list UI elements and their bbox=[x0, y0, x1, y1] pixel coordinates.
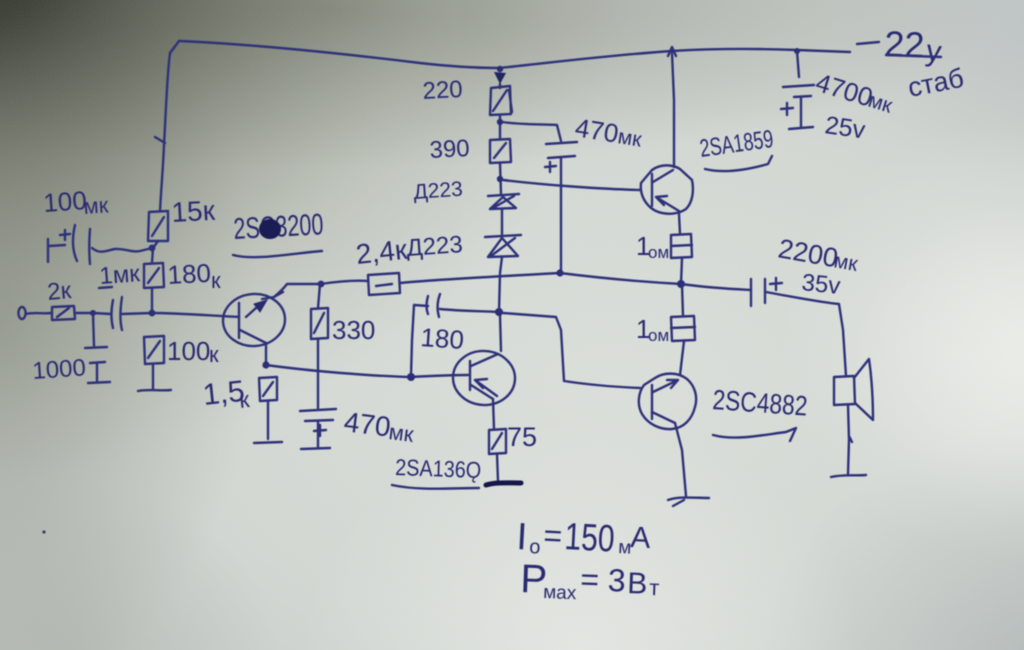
resistor 390 bbox=[490, 139, 511, 163]
resistor 15k bbox=[148, 211, 168, 241]
stray tick on left vertical bbox=[155, 137, 165, 143]
label Pmax = 3 Вт bbox=[520, 557, 660, 604]
label 25v bbox=[823, 111, 867, 144]
node top rail / 4700мк junction bbox=[794, 48, 800, 54]
label 2,4k bbox=[354, 234, 409, 270]
svg-text:В: В bbox=[627, 567, 648, 601]
node 470мк/output rail bbox=[556, 269, 563, 276]
wire Q3 emitter to 75 bbox=[493, 399, 494, 429]
resistor 1ом #2 bbox=[671, 316, 695, 341]
svg-text:2SA136Ǫ: 2SA136Ǫ bbox=[395, 454, 482, 483]
resistor 1,5k bbox=[259, 377, 277, 401]
svg-text:мах: мах bbox=[543, 582, 577, 604]
node 390/base-feed bbox=[497, 176, 503, 182]
wire diode2 to junction bbox=[499, 257, 502, 312]
svg-text:180: 180 bbox=[420, 322, 465, 355]
svg-text:ом: ом bbox=[648, 326, 669, 345]
label 2SC3200 bbox=[233, 208, 325, 257]
label Д223 #1 bbox=[413, 178, 464, 204]
wire 75 to ground bbox=[497, 454, 498, 481]
node 1000 junction bbox=[90, 310, 96, 316]
svg-text:А: А bbox=[630, 521, 652, 555]
label Io = 150 мА bbox=[516, 516, 652, 561]
svg-text:=: = bbox=[543, 517, 564, 554]
capacitor 470мк (emitter bypass) bbox=[300, 409, 336, 447]
wire 2k to node 1000 bbox=[75, 312, 93, 314]
wire node to 2.4k bbox=[321, 281, 368, 284]
label 220 bbox=[422, 76, 463, 105]
svg-text:к: к bbox=[211, 268, 221, 293]
speaker bbox=[834, 359, 873, 420]
resistor 1ом #1 bbox=[671, 234, 692, 258]
transistor Q2 2SA1859 bbox=[641, 165, 693, 213]
svg-text:к: к bbox=[209, 342, 219, 367]
label 470 мк (bootstrap) bbox=[573, 112, 644, 151]
resistor 2.4k bbox=[368, 273, 400, 295]
label 2SA1360 bbox=[392, 454, 482, 489]
wire Q4 collector to ground bbox=[675, 423, 686, 496]
wire series cap to base node bbox=[122, 313, 152, 314]
svg-text:150: 150 bbox=[564, 516, 616, 561]
wire 1.5k to ground bbox=[267, 401, 269, 439]
label 180 k bbox=[167, 258, 221, 293]
ground under 470мк bbox=[301, 448, 330, 449]
svg-text:390: 390 bbox=[429, 135, 470, 164]
node 180-cap tap bbox=[407, 373, 415, 381]
label 180 (series R) bbox=[420, 322, 465, 355]
label 330 bbox=[332, 315, 375, 345]
wire Q1 collector up to rail 283 bbox=[274, 284, 320, 297]
capacitor 180-series coupling bbox=[427, 294, 441, 317]
node top rail / 220 junction bbox=[494, 66, 506, 84]
diode Д223 #2 bbox=[485, 235, 521, 257]
svg-text:I: I bbox=[516, 516, 529, 558]
label 100 мк bbox=[42, 185, 109, 219]
capacitor 4700мк bbox=[781, 51, 814, 129]
input terminal bbox=[18, 307, 25, 319]
svg-text:о: о bbox=[529, 536, 541, 559]
wire 2.4k to 470мк node bbox=[400, 273, 559, 283]
ground under 1.5k bbox=[254, 442, 282, 443]
wire 330 to 470мк bbox=[317, 339, 319, 408]
wire node to 2SA1859 base bbox=[503, 180, 640, 190]
wire junction to 2SC4882 base bbox=[503, 313, 640, 388]
node diode/collector junction bbox=[495, 308, 503, 316]
label 4700мк bbox=[812, 67, 895, 118]
label 2SC4882 bbox=[712, 384, 809, 441]
label 2k bbox=[46, 277, 73, 306]
svg-text:25v: 25v bbox=[823, 111, 867, 144]
svg-text:= 3: = 3 bbox=[580, 561, 627, 599]
svg-text:ом: ом bbox=[648, 243, 669, 262]
wire top supply rail bbox=[179, 41, 850, 68]
label 1ом #2 bbox=[636, 314, 669, 345]
wire 1ом to output node bbox=[681, 258, 682, 284]
wire 180-cap right to diode junction bbox=[440, 309, 498, 312]
wire diode1 to diode2 bbox=[501, 209, 503, 235]
svg-text:мк: мк bbox=[83, 192, 110, 219]
svg-text:2,4к: 2,4к bbox=[354, 234, 409, 270]
stray dot bottom-left bbox=[42, 530, 45, 533]
node base junction bbox=[149, 310, 156, 317]
svg-text:15к: 15к bbox=[171, 195, 217, 228]
label 35v bbox=[800, 269, 841, 300]
wire 100мк to node bbox=[92, 248, 152, 252]
wire Q2 emitter to 1ом bbox=[679, 214, 680, 234]
wire 330 top lead bbox=[318, 284, 320, 308]
svg-text:100: 100 bbox=[42, 185, 87, 218]
label 100k bbox=[167, 336, 219, 367]
svg-text:1000: 1000 bbox=[32, 354, 87, 385]
svg-text:100: 100 bbox=[167, 336, 210, 366]
diode Д223 #1 bbox=[488, 194, 519, 209]
label -22v supply bbox=[857, 23, 943, 69]
wire 180k to input node bbox=[151, 288, 153, 313]
wire 180-cap left lead down to node bbox=[411, 305, 428, 376]
label 75 bbox=[507, 422, 537, 452]
transistor Q3 2SA1360 bbox=[452, 349, 517, 406]
label 1,5k bbox=[201, 375, 251, 413]
ground under 75 bbox=[486, 483, 521, 485]
ground under speaker bbox=[831, 475, 866, 477]
label 2SA1859 bbox=[698, 125, 775, 171]
label 1000 bbox=[32, 354, 87, 385]
resistor 2k bbox=[52, 306, 75, 320]
wire 100k to ground bbox=[152, 364, 154, 389]
capacitor 2200мк output bbox=[751, 278, 782, 306]
wire 1ом #2 to Q4 bbox=[680, 341, 684, 375]
svg-text:470: 470 bbox=[342, 406, 392, 442]
wire input to 2k bbox=[26, 313, 51, 314]
resistor 220 bbox=[490, 84, 512, 115]
label 470мк (emitter bypass) bbox=[342, 406, 415, 447]
resistor 100k bbox=[144, 336, 164, 364]
wire node to 470мк top bbox=[502, 122, 561, 141]
resistor 75 bbox=[489, 429, 506, 454]
node output junction bbox=[677, 280, 685, 288]
wire output rail to 1ом junction bbox=[560, 273, 681, 284]
wire 15k to node bbox=[152, 241, 158, 263]
wire node to series cap bbox=[93, 313, 111, 314]
node 330/2.4k junction bbox=[318, 281, 325, 288]
node top rail / 2SA1859 kink bbox=[668, 47, 676, 56]
transistor Q4 2SC4882 bbox=[639, 374, 696, 429]
node Q1 emitter bbox=[262, 361, 269, 368]
label 1ом #1 bbox=[636, 231, 669, 262]
wire Q3 collector to diode junction bbox=[500, 315, 501, 351]
svg-text:2к: 2к bbox=[46, 277, 73, 306]
label 390 bbox=[429, 135, 470, 164]
label стаб bbox=[905, 63, 966, 103]
wire output node to 2200мк bbox=[681, 284, 751, 290]
svg-text:мк: мк bbox=[387, 419, 415, 447]
label 2200 мк bbox=[776, 233, 860, 276]
svg-text:22: 22 bbox=[884, 23, 925, 65]
ground under 1000 bbox=[88, 382, 110, 383]
wire node to Q1 base bbox=[152, 313, 239, 317]
svg-text:330: 330 bbox=[332, 315, 375, 345]
svg-text:75: 75 bbox=[507, 422, 537, 452]
wire speaker to ground bbox=[848, 405, 852, 474]
wire rail vertical from top to 2SA1859 bbox=[672, 53, 674, 167]
transistor Q1 2SC3200 bbox=[221, 292, 286, 348]
node 15k/180k/100мк bbox=[149, 245, 156, 252]
svg-text:т: т bbox=[649, 575, 660, 600]
capacitor 1мк series input bbox=[112, 297, 123, 330]
wire 390 to diode1 bbox=[500, 163, 501, 194]
resistor 180k bbox=[144, 263, 164, 288]
svg-text:Д223: Д223 bbox=[406, 231, 464, 262]
wire node to 1ом #2 bbox=[682, 284, 683, 316]
svg-text:220: 220 bbox=[422, 76, 463, 105]
svg-text:мк: мк bbox=[616, 125, 644, 152]
resistor 330 bbox=[311, 308, 328, 339]
wire Q1 emitter to node bbox=[265, 343, 267, 365]
wire 2200мк to speaker bbox=[766, 292, 846, 376]
svg-text:1мк: 1мк bbox=[99, 260, 142, 290]
svg-text:35v: 35v bbox=[800, 269, 841, 300]
capacitor 470мк (bootstrap) bbox=[545, 142, 577, 272]
label 15k bbox=[171, 195, 217, 228]
wire left vertical from rail to 15k bbox=[160, 41, 179, 211]
label 1мк bbox=[99, 260, 142, 290]
ground under 100k bbox=[138, 390, 171, 391]
svg-text:2SC4882: 2SC4882 bbox=[712, 384, 809, 422]
label Д223 #2 bbox=[406, 231, 464, 262]
ground under Q4 bbox=[668, 498, 709, 507]
wire emitter node to driver base bbox=[266, 365, 468, 377]
capacitor 100мк (left electrolytic) bbox=[48, 225, 90, 264]
node 220/390/470мк bbox=[497, 119, 503, 125]
wire 220 to 390 bbox=[499, 115, 501, 139]
capacitor 1000 to ground bbox=[85, 313, 107, 381]
svg-text:180: 180 bbox=[167, 258, 212, 290]
svg-text:Д223: Д223 bbox=[413, 178, 464, 204]
